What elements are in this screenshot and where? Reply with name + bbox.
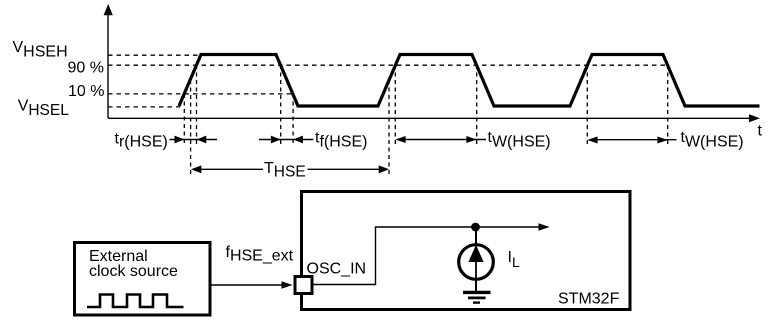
svg-text:clock source: clock source	[89, 263, 178, 280]
vertical dashed marker: fall1 90% crossing	[280, 65, 282, 146]
svg-text:90 %: 90 %	[68, 59, 104, 76]
wire: external clock to OSC_IN pin with arrow	[212, 281, 293, 288]
vertical dashed marker: rise2 90% crossing (tW start)	[394, 65, 396, 146]
y-axis	[104, 4, 113, 118]
vertical dashed marker: rise1 10% crossing	[183, 94, 185, 146]
svg-text:tr(HSE): tr(HSE)	[115, 131, 168, 151]
dashed level 90%	[108, 64, 668, 66]
dimension arrow tW(HSE) pulse2	[395, 136, 486, 143]
x-axis (time axis)	[108, 114, 760, 122]
vertical dashed marker: rise3 90% crossing (tW2 start)	[586, 65, 588, 146]
junction node dot	[471, 223, 480, 232]
dimension arrow THSE left segment	[191, 165, 263, 173]
STM32F box	[302, 192, 631, 310]
OSC_IN pin square	[295, 277, 312, 294]
current source IL	[459, 245, 494, 280]
svg-text:tf(HSE): tf(HSE)	[315, 130, 367, 151]
dimension arrow THSE right segment	[308, 165, 390, 173]
HSE clock waveform	[179, 55, 760, 107]
wire: node down to current source	[475, 227, 477, 245]
square-wave symbol inside external clock box	[87, 295, 184, 308]
vertical dashed marker: fall1 10% crossing	[292, 94, 294, 146]
vertical dashed marker: rise1 90% crossing	[196, 65, 198, 146]
dashed level VHSEL	[108, 106, 180, 108]
dimension arrow tW(HSE) pulse3	[587, 137, 676, 144]
vertical dashed marker: rise1 50% crossing (THSE start)	[190, 80, 192, 176]
svg-text:fHSE_ext: fHSE_ext	[226, 244, 294, 265]
ground	[463, 292, 491, 302]
vertical dashed marker: fall2 90% crossing (tW end)	[476, 65, 478, 146]
dimension arrows tf (facing pair on through line)	[259, 136, 313, 144]
dashed level VHSEH	[108, 54, 200, 56]
svg-text:STM32F: STM32F	[558, 291, 620, 308]
vertical dashed marker: rise2 50% crossing (THSE end)	[388, 80, 390, 176]
dashed level 10%	[108, 93, 293, 95]
wire: pin to internal node (up and right with arrow)	[314, 223, 550, 284]
svg-text:10 %: 10 %	[68, 83, 104, 100]
dimension arrows tr (facing pair on through line)	[170, 136, 218, 144]
svg-text:t: t	[758, 123, 763, 140]
external clock source box	[75, 243, 211, 316]
vertical dashed marker: fall3 90% crossing (tW2 end)	[667, 65, 669, 146]
wire: current source to ground	[475, 279, 477, 292]
svg-text:OSC_IN: OSC_IN	[307, 261, 367, 278]
